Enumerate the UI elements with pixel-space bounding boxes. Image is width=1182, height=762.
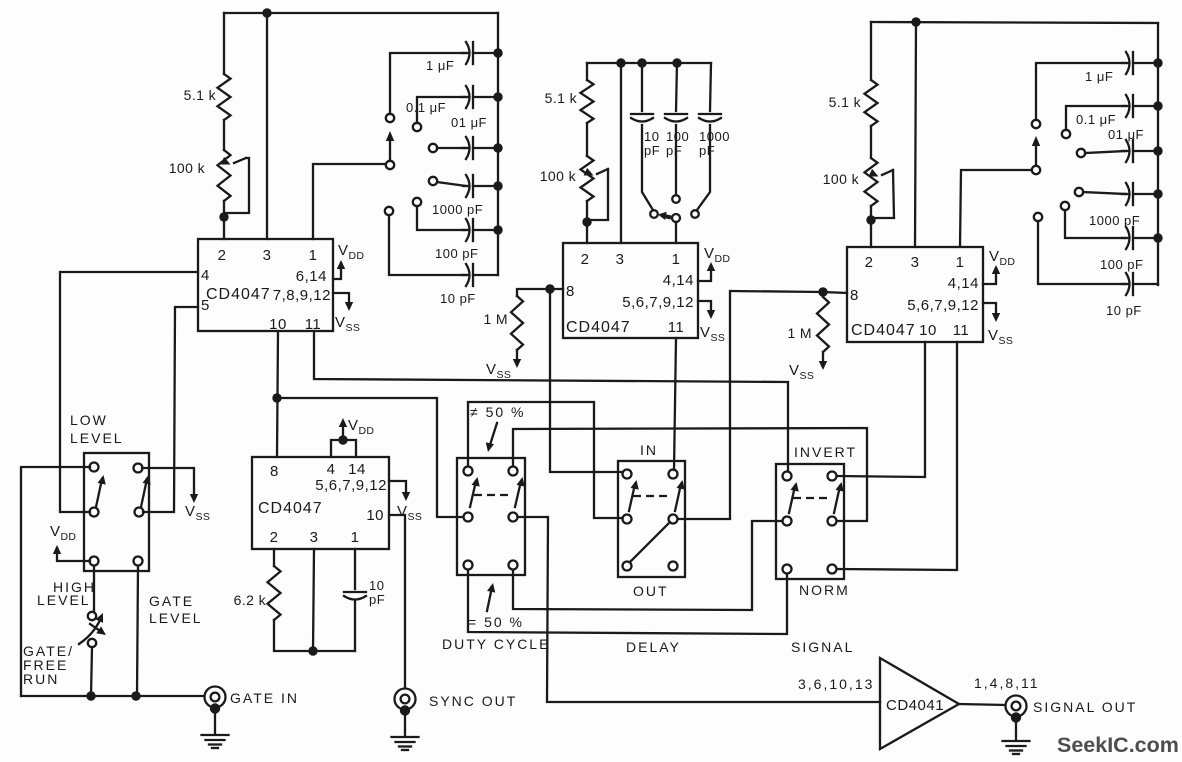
- svg-text:1: 1: [309, 247, 318, 264]
- capacitor C3 .01uF osc1: [462, 147, 468, 149]
- svg-text:4: 4: [201, 267, 210, 284]
- wire contact to C14: [1066, 106, 1126, 130]
- svg-text:4,14: 4,14: [948, 275, 979, 292]
- wire between resistors osc3: [870, 126, 872, 158]
- svg-text:LEVEL: LEVEL: [70, 430, 124, 446]
- wire contact to C5 osc1: [417, 206, 466, 230]
- S2 contact r1 right: [509, 467, 518, 476]
- node pin2 junction osc2: [582, 217, 591, 226]
- svg-text:≠ 50 %: ≠ 50 %: [470, 404, 525, 420]
- ground SYNC OUT: [392, 736, 419, 738]
- wire contact to C6 osc1: [389, 215, 466, 275]
- capacitor C4 1000pF osc1: [463, 185, 468, 187]
- switch S4 SIGNAL body: [776, 464, 844, 579]
- wire contact to C13: [1036, 63, 1126, 120]
- S4 contact r2 left: [783, 517, 792, 526]
- wire S2 r1-left to S3 r2-left: [468, 402, 622, 518]
- wire contact to C2 osc1: [417, 97, 466, 123]
- wire U1 pin10 down: [277, 331, 278, 457]
- svg-text:CD4041: CD4041: [886, 697, 944, 714]
- wire S1 row1-left to rail: [21, 467, 90, 696]
- S2 contact r3 right: [509, 561, 518, 570]
- toggle contact top: [88, 612, 96, 620]
- wire cap to bottom: [354, 600, 356, 651]
- rotary contact 1uF osc3: [1032, 120, 1040, 128]
- wire VSS stub U1: [333, 293, 349, 307]
- rotary contact 0.1uF osc3: [1062, 130, 1070, 138]
- resistor 1M osc3: [817, 297, 829, 352]
- svg-text:5,6,7,9,12: 5,6,7,9,12: [622, 294, 694, 311]
- svg-text:2: 2: [270, 529, 279, 546]
- wire 5.1k top lead osc1: [223, 13, 225, 74]
- S1 lever left: [96, 479, 102, 507]
- capacitor C2 0.1uF osc1: [462, 96, 468, 98]
- S3 contact r3 left: [623, 562, 632, 571]
- resistor 5.1k osc2: [581, 80, 594, 123]
- capacitor C1 1uF osc1: [462, 52, 468, 54]
- S3 contact r2 left: [623, 515, 632, 524]
- svg-text:10 pF: 10 pF: [1106, 303, 1142, 318]
- node osc2 pin3 junction: [616, 58, 625, 67]
- wire contact to C15: [1085, 151, 1126, 153]
- wire S2 r2-right to CD4041 input: [518, 517, 880, 702]
- S2 contact r2 left: [464, 513, 473, 522]
- wire VSS stub U4: [389, 481, 406, 497]
- switch S3 DELAY body: [618, 461, 685, 577]
- wire S2 r3-left to S4 r3-left: [468, 570, 787, 634]
- wire contact to C16: [1083, 192, 1126, 194]
- wire wiper loop osc3: [871, 170, 894, 218]
- rotary contact 1000pF osc3: [1075, 188, 1083, 196]
- svg-text:1 μF: 1 μF: [1085, 69, 1113, 84]
- wire U3 pin8 to 1M and S3: [731, 291, 847, 293]
- node U4 bottom junction: [308, 646, 317, 655]
- svg-text:LEVEL: LEVEL: [149, 610, 203, 626]
- svg-text:10: 10: [366, 507, 384, 524]
- svg-text:OUT: OUT: [633, 583, 669, 599]
- node pin2 junction osc3: [866, 215, 875, 224]
- wire U1 pin11 long horizontal: [314, 331, 788, 471]
- svg-text:RUN: RUN: [23, 671, 59, 687]
- switch S1 LOW LEVEL body: [84, 453, 149, 571]
- connector SYNC OUT: [395, 689, 416, 710]
- S3 lever right: [675, 484, 681, 511]
- wiper arrow 100k osc2: [597, 169, 608, 174]
- svg-text:SIGNAL OUT: SIGNAL OUT: [1033, 699, 1137, 715]
- wire U4 pin1 lead: [354, 549, 356, 589]
- svg-text:7,8,9,12: 7,8,9,12: [273, 287, 331, 304]
- wire C12 top lead: [710, 63, 711, 111]
- node osc2 C11 junction: [672, 58, 681, 67]
- toggle lever arrow: [79, 618, 101, 644]
- rotary wiper arrow osc1: [389, 140, 391, 160]
- wire 100k to U2 pin2: [586, 201, 588, 243]
- wire U4 pin10 to SYNC OUT: [389, 515, 405, 687]
- node gate rail: [131, 691, 140, 700]
- node pin2/pot junction: [219, 212, 228, 221]
- rotary pole osc1: [386, 161, 394, 169]
- capacitor 100pF osc2: [665, 113, 687, 115]
- wire VDD arrow U4: [342, 424, 344, 440]
- svg-text:1000: 1000: [699, 129, 730, 144]
- svg-text:8: 8: [850, 287, 859, 304]
- svg-text:3,6,10,13: 3,6,10,13: [798, 676, 874, 692]
- S3 contact r1 left: [623, 470, 632, 479]
- svg-text:5,6,7,9,12: 5,6,7,9,12: [315, 477, 387, 494]
- rotary contact 10pF osc3: [1034, 213, 1042, 221]
- svg-text:6,14: 6,14: [296, 268, 327, 285]
- wire VSS stub U2: [698, 301, 711, 315]
- svg-text:SeekIC.com: SeekIC.com: [1057, 733, 1179, 757]
- svg-text:01 μF: 01 μF: [451, 115, 487, 130]
- svg-text:8: 8: [270, 463, 279, 480]
- svg-text:8: 8: [566, 283, 575, 300]
- svg-text:CD4047: CD4047: [258, 500, 323, 517]
- svg-text:0.1 μF: 0.1 μF: [406, 100, 446, 115]
- wire U1 pin5 to S1: [143, 307, 198, 512]
- wire pole to U3 pin1: [960, 170, 1031, 247]
- wiper arrow 100k osc3: [882, 170, 893, 175]
- svg-text:100 k: 100 k: [540, 168, 577, 184]
- svg-text:1000 pF: 1000 pF: [432, 202, 483, 217]
- S3 contact r2 right: [669, 515, 678, 524]
- rotary contact 0.1uF osc1: [413, 123, 421, 131]
- svg-text:1 μF: 1 μF: [426, 58, 454, 73]
- potentiometer 100k osc2: [581, 156, 594, 201]
- svg-text:0.1 μF: 0.1 μF: [1076, 112, 1116, 127]
- S1 contact r1 left: [90, 463, 99, 472]
- svg-text:pF: pF: [369, 592, 385, 607]
- potentiometer 100k osc3: [865, 158, 878, 206]
- op IC U4 CD4047 body: [252, 457, 389, 549]
- svg-text:LOW: LOW: [70, 412, 108, 428]
- resistor 6.2k: [268, 566, 281, 620]
- svg-text:2: 2: [581, 251, 590, 268]
- svg-text:100 pF: 100 pF: [1100, 257, 1143, 272]
- wire S4 r1-right to U3 pin10: [837, 342, 925, 477]
- node C13 bus: [1153, 58, 1162, 67]
- op IC U2 CD4047 body: [563, 243, 698, 338]
- op IC U1 CD4047 body: [198, 239, 333, 331]
- svg-text:1 M: 1 M: [787, 325, 812, 341]
- potentiometer 100k osc1: [218, 150, 231, 201]
- svg-text:1000 pF: 1000 pF: [1089, 213, 1140, 228]
- wire U2 pin3 from rail: [620, 63, 622, 243]
- node U3 pin8 junction: [818, 287, 827, 296]
- wire SIGNAL OUT ground stem: [1015, 723, 1017, 740]
- svg-text:DELAY: DELAY: [626, 639, 681, 655]
- wire U5 output: [959, 704, 1005, 705]
- wire toggle to rail: [91, 647, 92, 696]
- wire contact to C3 osc1: [437, 147, 466, 149]
- wire GATE IN ground stem: [214, 714, 216, 734]
- wire U2 pin11 to S3 r1-right: [674, 338, 676, 470]
- wire between resistors osc1: [223, 120, 225, 150]
- node osc1 top junction: [262, 8, 271, 17]
- S2 contact r3 left: [464, 561, 473, 570]
- svg-text:INVERT: INVERT: [794, 444, 857, 460]
- op-amp U5 CD4041: [880, 658, 959, 749]
- wire S1 row3-left to toggle: [93, 566, 95, 611]
- wire contact to C4 osc1: [437, 182, 466, 186]
- capacitor 10pF osc2: [631, 113, 653, 115]
- wire 1M to VSS: [516, 350, 518, 364]
- S1 contact r1 right: [134, 464, 143, 473]
- node osc2 C10 junction: [637, 58, 646, 67]
- rotary contact 10pF osc1: [385, 207, 393, 215]
- svg-text:2: 2: [218, 247, 227, 264]
- S2 lever right: [515, 481, 521, 507]
- svg-text:4: 4: [327, 461, 336, 478]
- capacitor C5 100pF osc1: [462, 229, 468, 231]
- rotary contact 1uF osc1: [386, 114, 394, 122]
- wire top rail osc2: [587, 62, 711, 64]
- wire C11 top lead: [676, 63, 677, 111]
- ground SIGNAL OUT: [1003, 740, 1030, 742]
- capacitor 10pF U4: [344, 591, 366, 593]
- S4 contact r1 right: [828, 472, 837, 481]
- rotary wiper arrow osc3: [1035, 145, 1037, 165]
- svg-text:5.1 k: 5.1 k: [829, 94, 862, 110]
- wiper arrow 100k osc1: [234, 158, 246, 163]
- capacitor C14 0.1uF osc3: [1122, 105, 1128, 107]
- node C15 bus: [1153, 146, 1162, 155]
- svg-text:pF: pF: [644, 143, 660, 158]
- wire S1 row1-right to VSS: [142, 468, 194, 499]
- svg-text:5,6,7,9,12: 5,6,7,9,12: [907, 297, 979, 314]
- wire 5.1k top lead osc2: [586, 63, 588, 80]
- wire 5.1k top lead osc3: [870, 22, 872, 80]
- svg-text:DUTY CYCLE: DUTY CYCLE: [442, 636, 550, 652]
- wire 1M to VSS osc3: [822, 352, 824, 366]
- node VDD bracket U4: [338, 435, 347, 444]
- wire contact to C17: [1065, 210, 1126, 238]
- svg-text:5.1 k: 5.1 k: [184, 87, 217, 103]
- svg-text:10: 10: [644, 129, 659, 144]
- toggle contact bottom: [88, 639, 96, 647]
- wire U2 pin8 to 1M: [517, 289, 563, 296]
- rotary contact .01uF osc1: [429, 144, 437, 152]
- capacitor C16 1000pF osc3: [1122, 193, 1128, 195]
- wire VDD bracket U4: [331, 440, 356, 457]
- wire S4 r3-right to U3 pin11: [837, 342, 957, 570]
- svg-text:GATE IN: GATE IN: [230, 690, 299, 706]
- wire pole to U2 pin1: [675, 222, 677, 243]
- wire cap bus osc1: [497, 13, 499, 275]
- S2 contact r1 left: [464, 467, 473, 476]
- S1 lever right: [141, 479, 147, 507]
- svg-text:4,14: 4,14: [663, 272, 694, 289]
- S3 lever left: [629, 484, 635, 511]
- svg-text:pF: pF: [699, 143, 715, 158]
- rotary wiper osc2: [662, 216, 671, 218]
- wire top rail osc3: [871, 22, 1158, 23]
- wire wiper loop osc1: [224, 158, 249, 213]
- ground GATE IN: [202, 734, 229, 736]
- S4 lever left: [789, 486, 795, 513]
- wire IC1 pin3 from top rail: [266, 13, 268, 239]
- wire 100k to pin2: [223, 201, 225, 239]
- svg-text:CD4047: CD4047: [206, 286, 271, 303]
- S4 gang dashes: [793, 497, 828, 499]
- wire S1 row3-left to VDD: [57, 548, 90, 561]
- svg-text:10: 10: [919, 322, 937, 339]
- svg-text:100 pF: 100 pF: [435, 246, 478, 261]
- wire 100k to U3 pin2: [870, 206, 872, 247]
- rotary contact 100pF osc2: [672, 195, 680, 203]
- svg-text:10 pF: 10 pF: [440, 291, 476, 306]
- node C14 bus: [1153, 101, 1162, 110]
- wire SYNC OUT ground stem: [404, 716, 406, 736]
- connector GATE IN: [205, 687, 226, 708]
- node toggle rail: [86, 691, 95, 700]
- svg-text:CD4047: CD4047: [851, 322, 916, 339]
- svg-text:11: 11: [668, 319, 685, 336]
- svg-text:3: 3: [911, 254, 920, 271]
- S4 lever right: [834, 486, 840, 513]
- svg-text:3: 3: [616, 251, 625, 268]
- wire C10 to contact: [642, 125, 653, 210]
- wire VDD stub U2: [698, 267, 711, 281]
- svg-text:GATE: GATE: [149, 593, 194, 609]
- node C3 bus: [493, 143, 502, 152]
- svg-text:IN: IN: [640, 442, 658, 458]
- svg-text:100 k: 100 k: [823, 171, 860, 187]
- wire VSS stub U3: [983, 303, 996, 318]
- node C16 bus: [1153, 189, 1162, 198]
- rotary contact 1000pF osc2: [691, 210, 699, 218]
- wire S3 r1-left from 1M node: [550, 289, 622, 472]
- rotary contact 100pF osc3: [1061, 202, 1069, 210]
- node U2 pin8 junction: [545, 284, 554, 293]
- wire pole to IC1 pin1: [313, 164, 385, 239]
- wire S1 row3-right to rail: [137, 566, 138, 696]
- wire C11 to contact: [675, 125, 677, 194]
- S2 contact r2 right: [509, 513, 518, 522]
- svg-text:CD4047: CD4047: [566, 319, 631, 336]
- svg-text:100 k: 100 k: [169, 160, 206, 176]
- node C2 bus: [493, 92, 502, 101]
- S1 contact r2 left: [90, 508, 99, 517]
- svg-text:pF: pF: [666, 143, 682, 158]
- rotary contact .01uF osc3: [1077, 149, 1085, 157]
- svg-text:5.1 k: 5.1 k: [545, 90, 578, 106]
- capacitor C13 1uF osc3: [1122, 62, 1128, 64]
- wire cap bus osc3: [1157, 23, 1159, 285]
- S2 lever left: [470, 481, 476, 507]
- rotary pole osc3: [1032, 166, 1040, 174]
- resistor 5.1k osc1: [218, 74, 231, 120]
- capacitor C17 100pF osc3: [1122, 237, 1128, 239]
- switch S2 DUTY CYCLE body: [457, 458, 525, 575]
- rotary contact 10pF osc2: [650, 210, 658, 218]
- svg-text:3: 3: [310, 529, 319, 546]
- capacitor C6 10pF osc1: [462, 274, 468, 276]
- wire VDD stub U3: [983, 270, 996, 284]
- wire wiper loop osc2: [587, 169, 608, 220]
- S1 contact r3 left: [90, 557, 99, 566]
- node pin10 junction: [272, 393, 281, 402]
- wire 6.2k to bottom: [274, 620, 355, 651]
- capacitor C15 .01uF osc3: [1122, 150, 1128, 152]
- svg-text:1: 1: [351, 529, 360, 546]
- node C1 bus: [493, 48, 502, 57]
- wire contact to C18: [1038, 221, 1126, 284]
- rotary pole osc2: [672, 214, 680, 222]
- node osc3 pin3 junction: [911, 17, 920, 26]
- wire S3 r2-right to U3 pin8 wire: [678, 291, 730, 519]
- capacitor 1000pF osc2: [699, 113, 721, 115]
- S1 contact r3 right: [134, 557, 143, 566]
- svg-text:14: 14: [348, 461, 366, 478]
- svg-text:10: 10: [369, 578, 384, 593]
- wire C10 top lead: [641, 63, 643, 111]
- rotary contact 1000pF osc1: [429, 177, 437, 185]
- S3 contact r1 right: [669, 470, 678, 479]
- rotary contact 100pF osc1: [413, 198, 421, 206]
- resistor 5.1k osc3: [865, 80, 878, 126]
- capacitor C18 10pF osc3: [1122, 283, 1128, 285]
- wire between resistors osc2: [586, 123, 588, 156]
- svg-text:6.2 k: 6.2 k: [234, 592, 267, 608]
- arrow not50: [489, 423, 497, 448]
- svg-text:2: 2: [865, 254, 874, 271]
- svg-text:LEVEL: LEVEL: [37, 592, 91, 608]
- S4 contact r2 right: [828, 517, 837, 526]
- node C17 bus: [1153, 233, 1162, 242]
- arrow eq50: [487, 587, 492, 611]
- S2 gang dashes: [474, 494, 509, 496]
- svg-text:100: 100: [666, 129, 689, 144]
- wire contact to C1 osc1: [390, 53, 466, 114]
- S4 contact r1 left: [783, 472, 792, 481]
- S3 gang dashes: [633, 495, 668, 497]
- S1 contact r2 right: [135, 508, 144, 517]
- wire U3 pin3 from rail: [915, 22, 916, 247]
- svg-text:NORM: NORM: [799, 582, 850, 598]
- wire top rail osc1: [224, 12, 498, 14]
- S4 contact r3 left: [783, 565, 792, 574]
- wire U4 pin2 lead: [273, 549, 275, 566]
- wire S2 r1-right to S4 r2-right: [513, 428, 867, 521]
- svg-text:3: 3: [263, 247, 272, 264]
- wire junction to duty row2-left: [277, 398, 463, 517]
- svg-text:1: 1: [672, 251, 681, 268]
- svg-text:SYNC OUT: SYNC OUT: [429, 693, 517, 709]
- svg-text:11: 11: [953, 322, 970, 339]
- svg-text:1: 1: [956, 254, 965, 271]
- S3 long lever: [630, 522, 670, 562]
- op IC U3 CD4047 body: [847, 247, 983, 342]
- wire bottom rail to GATE IN: [21, 695, 204, 697]
- wire VDD stub U1: [333, 263, 341, 279]
- node C4 bus: [493, 181, 502, 190]
- wire U1 pin4 to S1: [60, 272, 198, 512]
- node C5 bus: [493, 225, 502, 234]
- resistor 1M osc2: [511, 296, 523, 350]
- wire S2 r3-right to S4 r2-left: [513, 521, 782, 610]
- S3 contact r3 right: [669, 562, 678, 571]
- svg-text:1,4,8,11: 1,4,8,11: [974, 675, 1040, 691]
- wire U4 pin3 down: [313, 549, 314, 651]
- wire C12 to contact: [697, 125, 710, 210]
- svg-text:1 M: 1 M: [483, 311, 508, 327]
- svg-text:= 50 %: = 50 %: [468, 614, 524, 630]
- connector SIGNAL OUT: [1006, 696, 1027, 717]
- S4 contact r3 right: [828, 565, 837, 574]
- svg-text:SIGNAL: SIGNAL: [791, 639, 854, 655]
